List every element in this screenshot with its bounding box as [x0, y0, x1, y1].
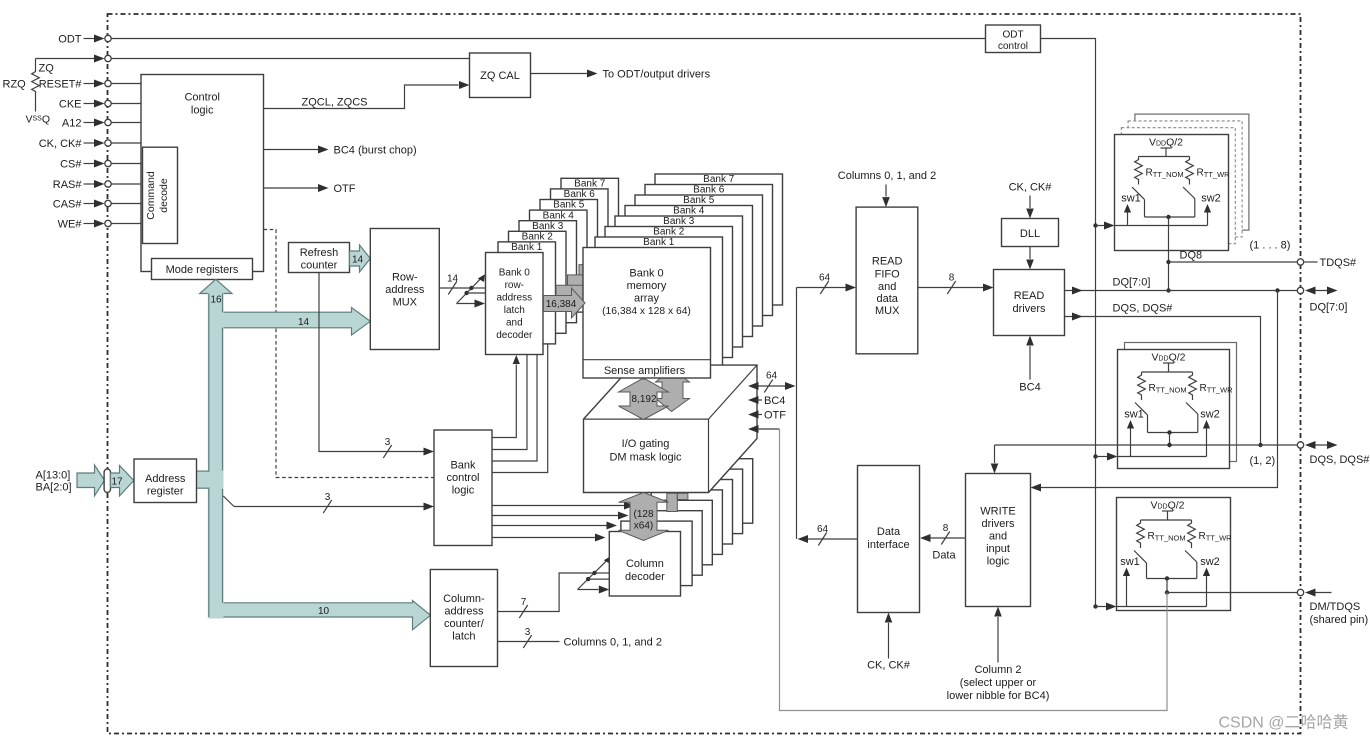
wire BC4 into READ drivers: [1019, 336, 1040, 394]
svg-text:VDDQ/2: VDDQ/2: [1150, 500, 1184, 512]
register slice capsule 17: [104, 469, 110, 493]
bank control logic block: [434, 430, 492, 546]
svg-text:WE#: WE#: [58, 219, 83, 231]
svg-text:(1 . . . 8): (1 . . . 8): [1250, 240, 1291, 252]
svg-text:memory: memory: [627, 280, 667, 292]
svg-text:Bank 4: Bank 4: [673, 206, 705, 217]
wire tap from DQS termination to DQS line: [1167, 433, 1171, 448]
svg-text:Control: Control: [184, 92, 219, 104]
teal address bus trunk: [200, 279, 431, 630]
input block arrow head 17 into address register: [111, 466, 134, 497]
wire DQ8 tap from termination to TDQS line: [1166, 217, 1202, 293]
svg-text:RTT_NOM: RTT_NOM: [1146, 168, 1184, 180]
input pin CKE: [59, 99, 142, 111]
DQ[7:0] pad bidirectional arrows: [1305, 287, 1347, 314]
svg-text:CKE: CKE: [59, 99, 82, 111]
svg-text:CAS#: CAS#: [53, 199, 83, 211]
svg-text:Columns 0, 1, and 2: Columns 0, 1, and 2: [838, 170, 936, 182]
gray row bus arrow 16,384: [544, 288, 586, 318]
column-address counter/latch block: [430, 570, 497, 667]
svg-text:Refresh: Refresh: [300, 247, 339, 259]
wire column 2 select into WRITE drivers: [947, 607, 1050, 703]
svg-text:address: address: [444, 606, 484, 618]
resistor RZQ to VSSQ: [3, 59, 51, 126]
input pin CS#: [60, 159, 141, 171]
address register block: [134, 459, 197, 503]
svg-text:RZQ: RZQ: [3, 79, 27, 91]
svg-text:counter: counter: [301, 260, 338, 272]
wire refresh counter to bank control logic 3: [319, 273, 434, 459]
svg-text:64: 64: [819, 273, 831, 284]
svg-text:MUX: MUX: [393, 297, 418, 309]
wire DQ[7:0] from READ drivers to pad: [1065, 277, 1304, 295]
wire To ODT/output drivers: [531, 69, 711, 81]
svg-text:row-: row-: [505, 280, 524, 291]
resistor RTT_WR RTT DM: [1188, 520, 1232, 548]
svg-text:DQ[7:0]: DQ[7:0]: [1113, 277, 1151, 289]
svg-text:To ODT/output drivers: To ODT/output drivers: [603, 69, 711, 81]
svg-text:CS#: CS#: [60, 159, 82, 171]
wire tap from DM termination to DM line: [1165, 579, 1169, 595]
svg-text:Bank 2: Bank 2: [653, 227, 685, 238]
svg-text:data: data: [876, 293, 898, 305]
svg-text:DM/TDQS: DM/TDQS: [1310, 601, 1361, 613]
svg-text:RTT_WR: RTT_WR: [1197, 168, 1231, 180]
svg-text:64: 64: [766, 371, 778, 382]
input pin CK, CK#: [39, 138, 142, 150]
svg-text:Data: Data: [877, 526, 901, 538]
wire address bus 3 into bank control logic: [223, 492, 434, 513]
bank stack labels: [511, 174, 735, 253]
resistor RTT_NOM RTT DM: [1137, 520, 1186, 548]
svg-text:CK, CK#: CK, CK#: [1009, 182, 1053, 194]
power VDDQ/2 RTT DM: [1141, 500, 1192, 521]
svg-text:Bank 0: Bank 0: [629, 268, 663, 280]
control logic block U1: [141, 75, 264, 272]
svg-text:10: 10: [318, 606, 330, 617]
wire BC4 into I/O gating: [748, 395, 785, 407]
svg-text:OTF: OTF: [764, 410, 786, 422]
wire DQ feedback to WRITE drivers: [1031, 291, 1278, 492]
switch sw2 RTT DQS (1,2): [1186, 403, 1220, 433]
column decoder stack banks 7 to 1: [621, 459, 753, 586]
input pin RAS#: [53, 179, 142, 191]
READ FIFO and data MUX block: [856, 207, 918, 354]
bank 0 memory array front face and sense amplifiers: [583, 248, 711, 379]
bank memory array stack banks 7 to 1: [595, 174, 783, 368]
svg-text:drivers: drivers: [1012, 303, 1046, 315]
wire OTF into I/O gating: [748, 410, 786, 422]
bus 64 data interface to bus: [798, 524, 858, 546]
wire CK CK# into data interface: [867, 613, 911, 672]
termination network RTT DQS (1,2) stacked outlines: [1125, 343, 1237, 462]
svg-text:16,384: 16,384: [546, 299, 577, 310]
svg-text:Data: Data: [932, 550, 956, 562]
switch sw1 RTT DQS (1,2): [1124, 403, 1147, 433]
input bus A[13:0] BA[2:0] labels: [36, 470, 72, 494]
svg-text:8: 8: [943, 523, 949, 534]
svg-text:control: control: [446, 472, 479, 484]
svg-text:latch: latch: [452, 631, 475, 643]
svg-text:logic: logic: [191, 105, 214, 117]
svg-text:READ: READ: [872, 256, 903, 268]
svg-text:Row-: Row-: [392, 272, 418, 284]
wire BC4 burst chop output: [264, 145, 417, 157]
wire TDQS# line: [1169, 257, 1358, 269]
gray column bus arrow 128x64: [619, 493, 669, 541]
svg-text:register: register: [147, 486, 184, 498]
power VDDQ/2 RTT DQS (1,2): [1142, 352, 1193, 373]
svg-text:sw2: sw2: [1200, 409, 1220, 421]
WRITE drivers and input logic block: [966, 474, 1031, 607]
svg-text:TDQS#: TDQS#: [1320, 257, 1358, 269]
DQS DQS# pad bidirectional arrows: [1305, 441, 1370, 466]
mode registers block: [152, 259, 253, 280]
wire DM mask input into I/O gating: [748, 425, 780, 433]
wire DM/TDQS line: [1167, 589, 1304, 595]
teal arrow refresh counter to row-address MUX with label 14: [350, 245, 371, 272]
svg-text:DQS, DQS#: DQS, DQS#: [1113, 303, 1174, 315]
gray wire DM to I/O gating mask input: [780, 429, 1168, 711]
svg-text:3: 3: [525, 627, 531, 638]
svg-text:CSDN @二哈哈黄: CSDN @二哈哈黄: [1219, 714, 1349, 732]
svg-text:BC4: BC4: [1019, 382, 1040, 394]
DLL block: [1002, 219, 1059, 247]
common rail RTT DQ (1...8): [1145, 215, 1195, 219]
svg-text:ODT: ODT: [1002, 30, 1023, 41]
svg-text:logic: logic: [452, 485, 475, 497]
wires bank control to column decoders: [492, 502, 635, 542]
svg-text:sw2: sw2: [1201, 193, 1221, 205]
svg-text:7: 7: [521, 597, 527, 608]
gray row bus arrows for banks 3,2,1: [556, 257, 620, 309]
wire DLL to READ drivers: [1026, 247, 1034, 270]
svg-text:BC4 (burst chop): BC4 (burst chop): [334, 145, 417, 157]
svg-text:latch: latch: [504, 305, 525, 316]
resistor RTT_WR RTT DQ (1...8): [1186, 157, 1230, 185]
switch sw1 RTT DM: [1120, 551, 1146, 579]
gray column bus arrow slivers: [667, 493, 688, 511]
svg-text:17: 17: [111, 477, 123, 488]
svg-text:input: input: [986, 543, 1010, 555]
svg-text:Bank 2: Bank 2: [522, 232, 554, 243]
svg-text:14: 14: [352, 255, 364, 266]
wire ODT branch to DQ termination: [1093, 222, 1114, 230]
svg-text:ZQCL, ZQCS: ZQCL, ZQCS: [301, 97, 367, 109]
switch sw2 RTT DM: [1185, 551, 1220, 579]
wire CK CK# into DLL: [1009, 182, 1053, 219]
svg-text:Column 2: Column 2: [974, 664, 1021, 676]
svg-text:sw2: sw2: [1200, 556, 1220, 568]
switch control wires RTT DQS (1,2): [1118, 420, 1211, 457]
command decode block: [143, 147, 178, 243]
svg-text:sw1: sw1: [1120, 556, 1140, 568]
svg-text:DQ[7:0]: DQ[7:0]: [1310, 302, 1348, 314]
switch sw1 RTT DQ (1...8): [1121, 187, 1144, 217]
svg-text:ODT: ODT: [58, 34, 82, 46]
svg-text:ZQ: ZQ: [39, 63, 55, 75]
svg-text:CK, CK#: CK, CK#: [39, 138, 83, 150]
svg-text:DQS, DQS#: DQS, DQS#: [1310, 454, 1370, 466]
svg-text:and: and: [878, 281, 896, 293]
column decoder block: [609, 532, 680, 597]
wire column address bus 7 to column decoder: [498, 556, 612, 618]
svg-text:Column-: Column-: [443, 593, 485, 605]
svg-text:OTF: OTF: [334, 183, 356, 195]
svg-text:Bank 1: Bank 1: [511, 242, 543, 253]
svg-text:Bank: Bank: [450, 460, 476, 472]
svg-text:(shared pin): (shared pin): [1310, 614, 1369, 626]
READ drivers block: [994, 270, 1065, 336]
svg-text:14: 14: [447, 274, 459, 285]
svg-text:Address: Address: [145, 473, 186, 485]
bus 64 between I/O gating and read-write bus: [748, 371, 796, 393]
svg-text:MUX: MUX: [875, 305, 900, 317]
vertical 64-bit data bus: [796, 288, 798, 540]
bank row-address latch stack banks 7 to 1: [498, 178, 619, 344]
wire columns 0 1 2 select: [498, 627, 662, 649]
input pin A12: [62, 118, 142, 130]
input pin RESET#: [39, 79, 142, 91]
svg-text:DLL: DLL: [1020, 228, 1040, 240]
svg-text:Command: Command: [145, 171, 157, 220]
svg-text:(16,384 x 128 x 64): (16,384 x 128 x 64): [602, 306, 691, 317]
svg-text:RESET#: RESET#: [39, 79, 83, 91]
DM/TDQS pad input arrow: [1305, 589, 1368, 627]
wire DQS DQS# from READ drivers: [1065, 303, 1263, 448]
common rail RTT DQS (1,2): [1148, 430, 1198, 434]
svg-text:64: 64: [817, 524, 829, 535]
svg-text:BC4: BC4: [764, 395, 785, 407]
svg-text:(1, 2): (1, 2): [1250, 455, 1276, 467]
svg-text:Bank 5: Bank 5: [553, 200, 585, 211]
svg-text:3: 3: [325, 492, 331, 503]
svg-text:(128: (128: [633, 509, 653, 520]
svg-text:and: and: [506, 318, 523, 329]
svg-text:ZQ CAL: ZQ CAL: [480, 70, 520, 82]
svg-text:address: address: [497, 293, 533, 304]
svg-text:Bank 3: Bank 3: [532, 221, 564, 232]
termination network RTT DQ (1...8) box: [1115, 135, 1229, 251]
termination network RTT DQ (1...8) stacked outlines: [1121, 114, 1249, 244]
svg-text:Bank 7: Bank 7: [703, 174, 735, 185]
svg-text:sw1: sw1: [1124, 409, 1144, 421]
gray sense amp bus arrow behind for bank 1: [656, 369, 690, 412]
svg-text:address: address: [385, 284, 425, 296]
svg-text:Sense amplifiers: Sense amplifiers: [604, 365, 686, 377]
resistor RTT_WR RTT DQS (1,2): [1189, 372, 1233, 400]
svg-text:8: 8: [949, 273, 955, 284]
power VDDQ/2 RTT DQ (1...8): [1139, 137, 1190, 157]
bus 8 READ FIFO to READ drivers: [918, 273, 994, 295]
wire ZQCL, ZQCS from Control logic to ZQ CAL: [264, 81, 470, 109]
svg-text:x64): x64): [634, 521, 653, 532]
wire DQS DQS# line to pad and write logic: [991, 442, 1304, 474]
bank 0 row-address latch block: [486, 253, 544, 355]
svg-text:decoder: decoder: [625, 571, 665, 583]
wire row-address bus 14 to bank row latches: [439, 274, 485, 308]
wire ODT control to termination switches: [1041, 39, 1096, 607]
svg-text:decode: decode: [158, 178, 170, 213]
svg-text:logic: logic: [987, 556, 1010, 568]
svg-text:counter/: counter/: [444, 618, 485, 630]
svg-text:Bank 4: Bank 4: [543, 210, 575, 221]
switch sw2 RTT DQ (1...8): [1183, 187, 1221, 217]
svg-text:Bank 6: Bank 6: [564, 189, 596, 200]
gray sense amp bus arrow 8,192: [619, 379, 669, 419]
input pin ODT: [58, 34, 985, 46]
svg-text:CK, CK#: CK, CK#: [867, 660, 911, 672]
switch control wires RTT DM: [1117, 568, 1211, 607]
svg-text:WRITE: WRITE: [980, 506, 1015, 518]
svg-text:array: array: [634, 293, 660, 305]
svg-text:VDDQ/2: VDDQ/2: [1151, 352, 1185, 364]
svg-text:interface: interface: [867, 539, 909, 551]
svg-text:sw1: sw1: [1121, 193, 1141, 205]
input block arrow A/BA: [77, 465, 105, 496]
I/O gating DM mask logic 3D block: [584, 365, 758, 492]
svg-text:16: 16: [210, 295, 222, 306]
svg-text:BA[2:0]: BA[2:0]: [36, 482, 72, 494]
svg-text:RTT_WR: RTT_WR: [1200, 383, 1234, 395]
svg-text:control: control: [998, 41, 1028, 52]
svg-text:DQ8: DQ8: [1180, 250, 1203, 262]
resistor RTT_NOM RTT DQ (1...8): [1135, 157, 1184, 185]
svg-text:3: 3: [385, 437, 391, 448]
resistor RTT_NOM RTT DQS (1,2): [1138, 372, 1187, 400]
svg-text:Columns 0, 1, and 2: Columns 0, 1, and 2: [564, 637, 662, 649]
svg-text:RTT_NOM: RTT_NOM: [1149, 383, 1187, 395]
svg-text:Column: Column: [626, 558, 664, 570]
input pin WE#: [58, 219, 142, 231]
svg-text:RAS#: RAS#: [53, 179, 83, 191]
teal bus trunk outline: [209, 294, 223, 618]
svg-text:Bank 6: Bank 6: [693, 185, 725, 196]
ODT control block: [986, 25, 1041, 53]
svg-text:drivers: drivers: [981, 518, 1015, 530]
data interface block: [858, 466, 920, 613]
svg-text:(select upper or: (select upper or: [960, 677, 1037, 689]
wire OTF output: [264, 183, 356, 195]
row-address MUX block: [370, 229, 439, 350]
teal stub from address register to trunk: [197, 471, 210, 488]
svg-text:Bank 3: Bank 3: [663, 216, 695, 227]
refresh counter block: [289, 243, 350, 273]
input pin ZQ: [36, 55, 470, 75]
input pin CAS#: [53, 199, 142, 211]
svg-text:8,192: 8,192: [631, 394, 656, 405]
svg-text:lower nibble for BC4): lower nibble for BC4): [947, 690, 1050, 702]
dashed control path from Control logic to Bank control logic: [264, 230, 435, 478]
common rail RTT DM: [1147, 576, 1197, 580]
svg-text:Bank 0: Bank 0: [499, 268, 531, 279]
svg-text:FIFO: FIFO: [875, 269, 900, 281]
svg-text:Bank 5: Bank 5: [683, 195, 715, 206]
bus 64 into READ FIFO: [797, 273, 857, 295]
wires bank control to row latches: [492, 345, 548, 473]
ZQ CAL block: [470, 53, 531, 98]
svg-text:DM mask logic: DM mask logic: [609, 452, 682, 464]
svg-text:and: and: [989, 531, 1007, 543]
bus 8 write drivers to data interface: [920, 523, 966, 562]
wire columns 0 1 2 into READ FIFO: [838, 170, 936, 207]
svg-text:A12: A12: [62, 118, 82, 130]
svg-text:RTT_NOM: RTT_NOM: [1148, 531, 1186, 543]
svg-text:Bank 7: Bank 7: [574, 179, 606, 190]
switch control wires RTT DQ (1...8): [1115, 204, 1212, 226]
termination network RTT DM box: [1117, 498, 1231, 611]
svg-text:Mode registers: Mode registers: [166, 264, 239, 276]
wire ODT branch to DQS termination: [1093, 453, 1117, 461]
svg-text:Bank 1: Bank 1: [643, 237, 675, 248]
svg-text:A[13:0]: A[13:0]: [36, 470, 71, 482]
svg-text:RTT_WR: RTT_WR: [1199, 531, 1233, 543]
svg-text:14: 14: [298, 317, 310, 328]
svg-text:decoder: decoder: [496, 330, 533, 341]
svg-text:READ: READ: [1014, 290, 1045, 302]
svg-text:VDDQ/2: VDDQ/2: [1149, 137, 1183, 149]
termination network RTT DQS (1,2) box: [1118, 350, 1230, 469]
svg-text:I/O gating: I/O gating: [622, 438, 670, 450]
wire ODT branch to DM termination: [1093, 603, 1116, 611]
